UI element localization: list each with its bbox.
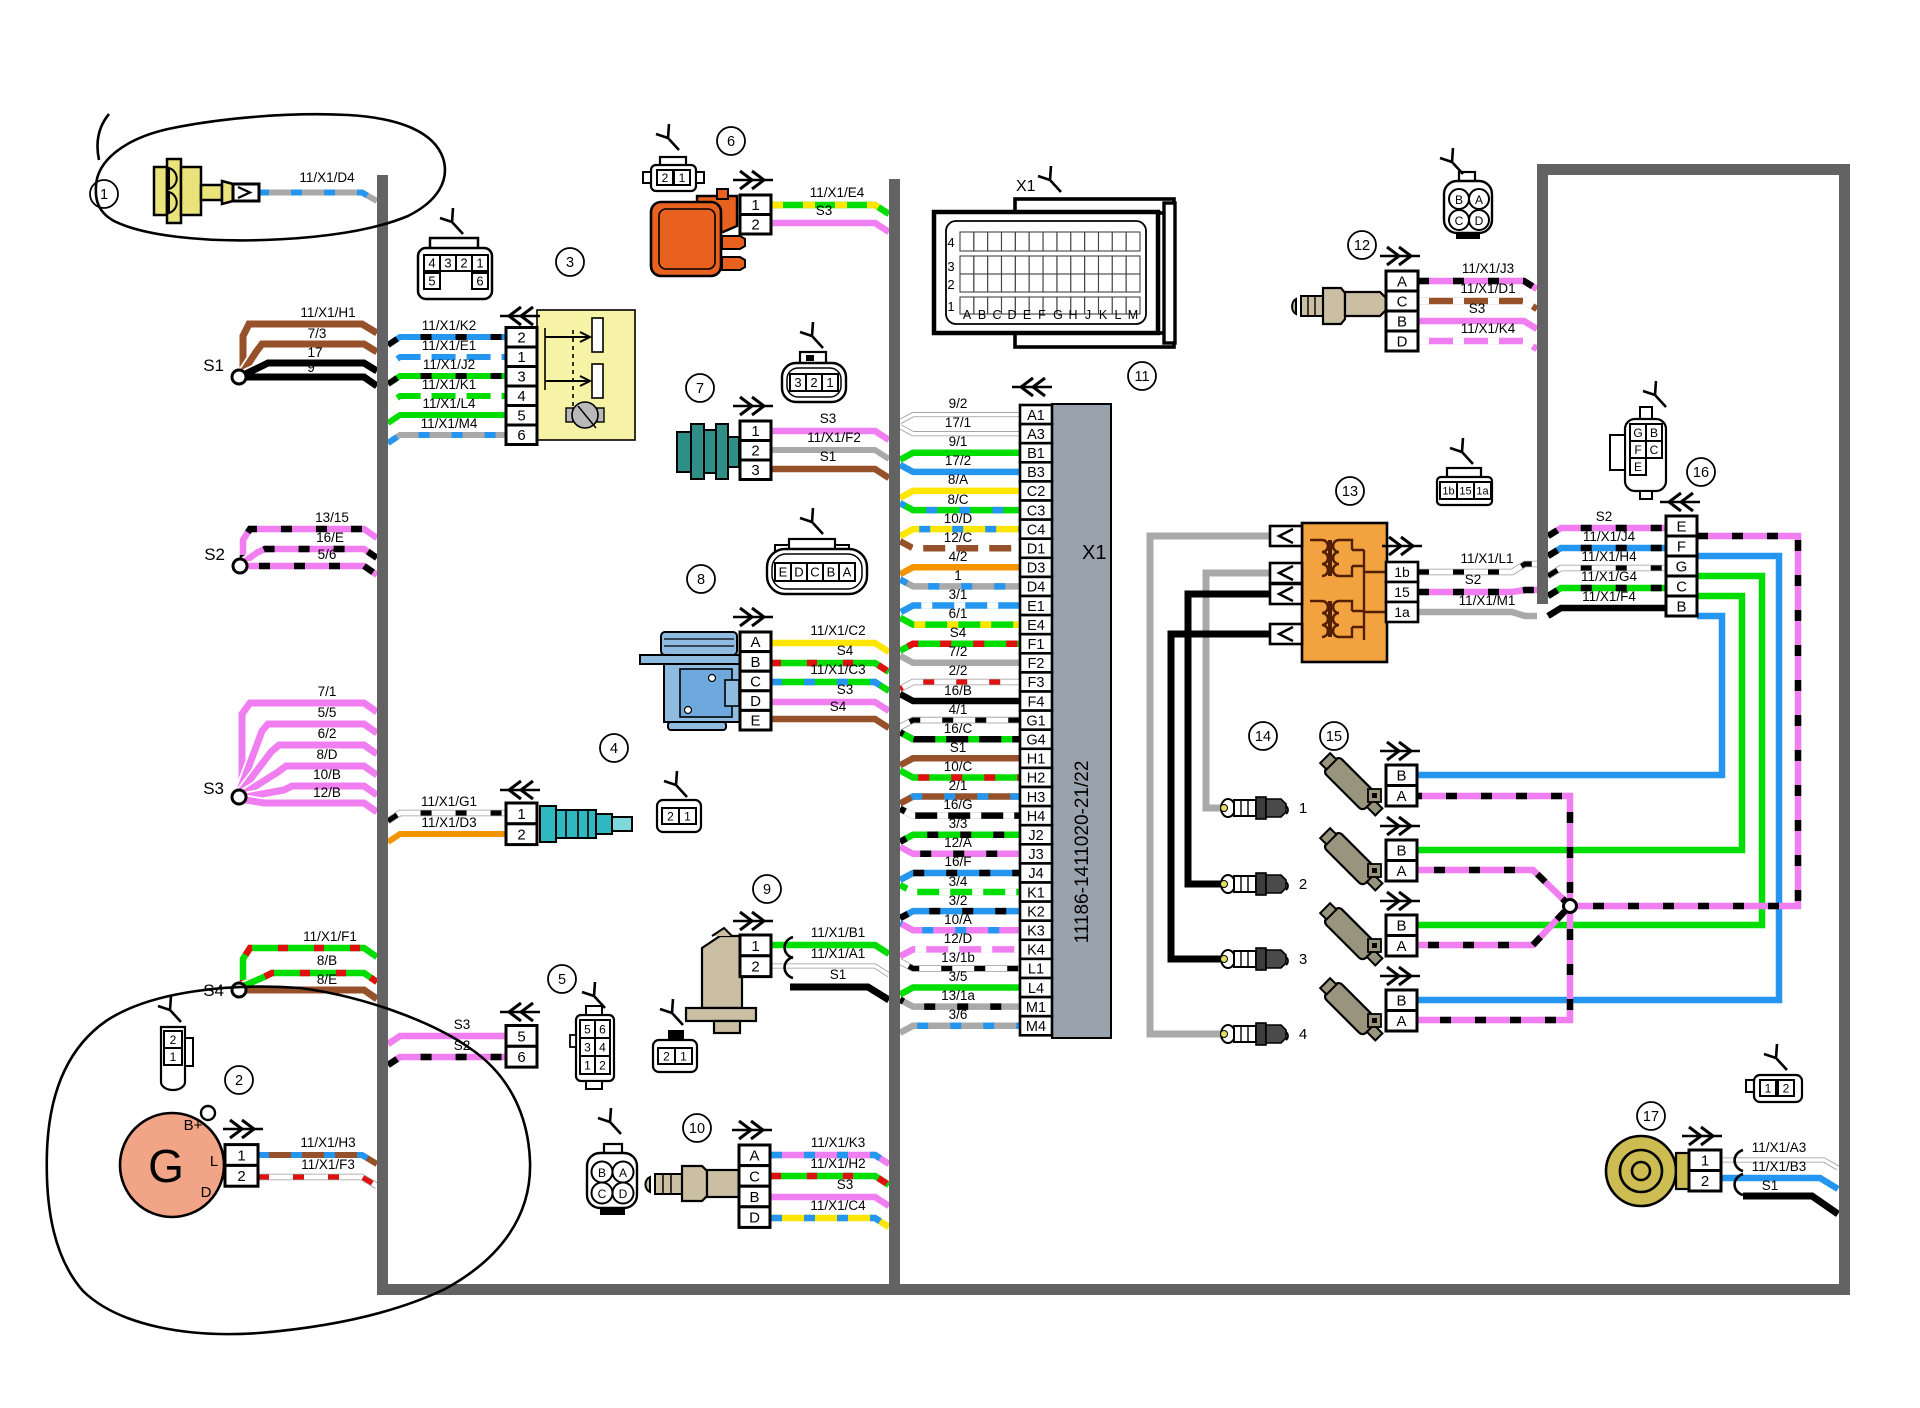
wire 16/F to ECU pin J4	[900, 873, 1020, 880]
wire S1 comp7 pin3	[771, 469, 889, 478]
svg-text:S4: S4	[837, 643, 854, 658]
svg-text:3: 3	[751, 462, 759, 479]
svg-text:X1: X1	[1082, 542, 1106, 564]
svg-text:1a: 1a	[1394, 604, 1410, 620]
svg-text:9/1: 9/1	[949, 434, 968, 449]
svg-text:S2: S2	[204, 545, 225, 564]
wire 17 black from S1	[239, 363, 377, 377]
wire 11/X1/H2 o2 C	[771, 1176, 889, 1185]
callout circle 5	[548, 965, 576, 993]
svg-text:8: 8	[697, 572, 705, 588]
svg-text:3/2: 3/2	[949, 893, 968, 908]
wire S4 maf E	[771, 719, 889, 728]
svg-text:L4: L4	[1028, 981, 1044, 997]
wire 11/X1/A1 cks pin2	[771, 966, 889, 975]
svg-text:E: E	[779, 565, 788, 580]
callout circle 12	[1348, 231, 1376, 259]
svg-text:J3: J3	[1028, 847, 1043, 863]
svg-text:15: 15	[1459, 486, 1471, 498]
wire 13/1b to ECU pin L1	[900, 962, 1020, 969]
wire 10/D to ECU pin C4	[900, 529, 1020, 536]
svg-text:17: 17	[307, 345, 322, 360]
svg-text:7: 7	[696, 381, 704, 397]
svg-text:S3: S3	[816, 203, 833, 218]
svg-text:A: A	[1396, 938, 1406, 955]
svg-text:G: G	[148, 1140, 184, 1192]
svg-text:1: 1	[584, 1058, 591, 1072]
svg-text:A: A	[749, 1148, 759, 1165]
wire comp16 B blue to injector 1	[1417, 616, 1722, 775]
wire S3 plug12 B	[1418, 321, 1537, 329]
bus bar middle vertical	[889, 179, 900, 1295]
svg-text:2: 2	[237, 1168, 245, 1185]
svg-text:J4: J4	[1028, 866, 1043, 882]
svg-text:11/X1/C3: 11/X1/C3	[810, 662, 865, 677]
svg-text:A: A	[750, 634, 760, 651]
svg-text:E: E	[1676, 518, 1686, 535]
callout circle 9	[753, 875, 781, 903]
svg-text:11/X1/J2: 11/X1/J2	[423, 357, 475, 372]
wire 1 to ECU pin D4	[900, 579, 1020, 586]
arrow symbol comp17	[1682, 1135, 1722, 1137]
svg-text:2/2: 2/2	[949, 663, 968, 678]
svg-text:9/2: 9/2	[949, 396, 968, 411]
svg-text:11/X1/B1: 11/X1/B1	[811, 925, 866, 940]
wire 10/C to ECU pin H2	[900, 771, 1020, 778]
svg-text:H3: H3	[1027, 790, 1046, 806]
wire 11/X1/D1 plug12 C	[1418, 301, 1537, 309]
svg-text:9: 9	[307, 360, 315, 375]
wire S3 comp7 pin1	[771, 431, 889, 440]
svg-text:S3: S3	[454, 1017, 471, 1032]
svg-text:2: 2	[517, 827, 525, 844]
svg-text:2: 2	[1299, 876, 1307, 893]
component 12 pin boxes	[1386, 271, 1418, 351]
svg-text:C: C	[1650, 443, 1659, 457]
frame right vertical bar	[1839, 164, 1850, 1295]
svg-text:11/X1/F4: 11/X1/F4	[1582, 589, 1636, 604]
svg-text:3/1: 3/1	[949, 587, 968, 602]
svg-text:4: 4	[1299, 1026, 1307, 1043]
svg-text:5: 5	[558, 972, 566, 988]
wire 11/X1/F4 to comp16 B	[1548, 608, 1666, 616]
svg-text:S3: S3	[837, 1177, 854, 1192]
svg-text:11/X1/C2: 11/X1/C2	[810, 623, 865, 638]
svg-text:1: 1	[237, 1147, 245, 1164]
svg-text:D: D	[1397, 333, 1408, 350]
wire coil gray to plug 4	[1150, 536, 1270, 1034]
component 4 turquoise body	[540, 806, 632, 842]
module input connectors	[1270, 526, 1302, 644]
svg-text:C: C	[1676, 578, 1687, 595]
svg-text:B: B	[978, 308, 986, 322]
wire 16/G to ECU pin H4	[900, 809, 1020, 816]
wire S3 coil pin2	[771, 223, 889, 232]
connector icon component 2	[158, 996, 193, 1090]
wire 12/C to ECU pin D1	[900, 541, 1020, 548]
component 3 yellow box	[537, 310, 635, 440]
svg-text:3: 3	[566, 255, 574, 271]
svg-text:10/B: 10/B	[313, 767, 341, 782]
svg-text:5: 5	[517, 1028, 525, 1045]
svg-text:A: A	[1396, 863, 1406, 880]
svg-text:3/4: 3/4	[949, 874, 968, 889]
svg-text:B: B	[750, 654, 760, 671]
crank sensor pin boxes	[740, 935, 771, 977]
connector icon module 13	[1437, 438, 1492, 505]
wire 8/A to ECU pin C2	[900, 491, 1020, 498]
svg-text:2: 2	[751, 443, 759, 460]
svg-text:1: 1	[679, 171, 686, 185]
wire 11/X1/G4 to comp16 C	[1548, 588, 1666, 596]
svg-text:17/2: 17/2	[945, 453, 971, 468]
callout circle 11	[1128, 362, 1156, 390]
svg-text:D4: D4	[1027, 580, 1046, 596]
svg-text:F: F	[1038, 308, 1046, 322]
svg-text:16/G: 16/G	[943, 797, 972, 812]
wire S4 maf B	[771, 663, 889, 672]
svg-text:3: 3	[1299, 951, 1307, 968]
svg-text:7/2: 7/2	[949, 644, 968, 659]
module output pin boxes	[1386, 562, 1418, 622]
MAF sensor blue body	[640, 632, 747, 730]
svg-text:6: 6	[727, 134, 735, 150]
svg-text:1: 1	[751, 197, 759, 214]
svg-text:E4: E4	[1027, 618, 1045, 634]
svg-text:11/X1/E1: 11/X1/E1	[422, 338, 477, 353]
wire comp16 C green to injector 2	[1417, 596, 1742, 850]
arrow symbol comp10	[732, 1129, 772, 1131]
svg-text:3: 3	[444, 256, 451, 271]
svg-text:B: B	[598, 1166, 606, 1180]
wire S2 to comp5 pin 6	[388, 1057, 506, 1065]
svg-text:K: K	[1099, 308, 1108, 322]
svg-text:4: 4	[610, 741, 618, 757]
svg-text:2: 2	[947, 277, 954, 292]
svg-text:B+: B+	[184, 1117, 203, 1134]
svg-text:H: H	[1068, 308, 1077, 322]
svg-text:2: 2	[667, 809, 674, 823]
hand-drawn loop tail	[97, 114, 109, 160]
wire 11/X1/M4 to pin 6	[388, 435, 506, 443]
svg-text:5: 5	[517, 408, 525, 425]
wire 10/A to ECU pin K3	[900, 923, 1020, 930]
chevron symbol comp16	[1660, 501, 1700, 503]
svg-text:11/X1/K1: 11/X1/K1	[422, 377, 477, 392]
wire 9 black from S1	[239, 377, 377, 386]
svg-text:11/X1/J4: 11/X1/J4	[1583, 529, 1636, 544]
svg-text:1: 1	[1765, 1081, 1772, 1095]
svg-text:1: 1	[170, 1050, 177, 1064]
svg-text:2: 2	[170, 1033, 177, 1047]
svg-text:B1: B1	[1027, 446, 1045, 462]
svg-text:D: D	[201, 1184, 212, 1201]
component 12 sensor body	[1292, 288, 1386, 324]
svg-text:15: 15	[1394, 584, 1410, 600]
node S2	[204, 545, 247, 573]
svg-text:13/1b: 13/1b	[941, 950, 975, 965]
connector icon component 17	[1746, 1044, 1802, 1102]
svg-text:C: C	[1455, 214, 1464, 228]
svg-text:B: B	[1396, 918, 1406, 935]
wire 12/D to ECU pin K4	[900, 949, 1020, 956]
svg-text:12/C: 12/C	[944, 530, 973, 545]
svg-text:5/6: 5/6	[318, 547, 337, 562]
wire 11/X1/B1 cks pin1	[771, 945, 889, 954]
svg-text:B: B	[1396, 768, 1406, 785]
svg-text:6: 6	[517, 427, 525, 444]
generator circle	[120, 1106, 224, 1217]
wire comp16 G green to injector 3	[1417, 576, 1762, 925]
connector icon component 8 oval EDCBA	[767, 508, 867, 594]
wire 5/6 from S2	[240, 566, 377, 575]
svg-text:1b: 1b	[1442, 486, 1454, 498]
svg-text:H2: H2	[1027, 771, 1046, 787]
svg-text:10: 10	[689, 1121, 705, 1137]
wire 11/X1/J3 plug12 A	[1418, 281, 1537, 289]
svg-text:A: A	[1396, 788, 1406, 805]
svg-text:11/X1/B3: 11/X1/B3	[1752, 1159, 1807, 1174]
svg-text:2: 2	[235, 1073, 243, 1089]
svg-text:C: C	[749, 1168, 760, 1185]
connector icon component 3	[418, 208, 492, 299]
svg-text:S2: S2	[1596, 509, 1613, 524]
svg-text:6: 6	[517, 1049, 525, 1066]
svg-text:G1: G1	[1026, 713, 1045, 729]
svg-text:3: 3	[584, 1040, 591, 1054]
svg-text:1: 1	[684, 809, 691, 823]
svg-text:1: 1	[1299, 800, 1307, 817]
svg-text:G: G	[1676, 558, 1688, 575]
wire 11/X1/K3 o2 A	[771, 1155, 889, 1164]
svg-text:S1: S1	[830, 967, 847, 982]
svg-text:F: F	[1677, 538, 1686, 555]
svg-text:S3: S3	[837, 682, 854, 697]
wire 11/X1/A3 knock 1	[1721, 1160, 1838, 1168]
MAF pin boxes	[740, 632, 771, 730]
svg-text:E: E	[750, 713, 760, 730]
wire 11/X1/L4 to pin 5	[388, 415, 506, 423]
svg-text:2: 2	[751, 959, 759, 976]
connector icon component 10 round 4pin	[587, 1108, 637, 1215]
generator pin boxes	[225, 1145, 258, 1187]
wire 3/4 to ECU pin K1	[900, 885, 1020, 892]
wire injector 1 A violet	[1417, 796, 1570, 900]
svg-text:14: 14	[1255, 729, 1271, 745]
callout circle 15	[1320, 722, 1348, 750]
callout circle 4	[600, 734, 628, 762]
svg-text:2: 2	[1783, 1081, 1790, 1095]
svg-text:11/X1/G4: 11/X1/G4	[1581, 569, 1638, 584]
wire 17/2 to ECU pin B3	[900, 465, 1020, 472]
svg-text:3/3: 3/3	[949, 816, 968, 831]
svg-text:2: 2	[460, 256, 467, 271]
hand-drawn loop around component 2	[47, 987, 530, 1334]
svg-text:C3: C3	[1027, 503, 1046, 519]
svg-text:7/3: 7/3	[308, 326, 327, 341]
svg-text:A: A	[1475, 193, 1483, 207]
svg-text:11/X1/F3: 11/X1/F3	[301, 1157, 355, 1172]
svg-text:2/1: 2/1	[949, 778, 968, 793]
svg-text:D3: D3	[1027, 561, 1046, 577]
svg-text:K1: K1	[1027, 885, 1045, 901]
svg-text:10/D: 10/D	[944, 511, 973, 526]
arrow symbol coil	[733, 179, 773, 181]
svg-text:S1: S1	[203, 356, 224, 375]
svg-text:D: D	[1475, 214, 1484, 228]
svg-text:C: C	[992, 308, 1001, 322]
connector icon component 9	[653, 999, 697, 1072]
wire 16/B to ECU pin F4	[900, 694, 1020, 701]
wire 11/X1/L1 module out 1b	[1418, 564, 1537, 572]
svg-text:12/D: 12/D	[944, 931, 973, 946]
svg-text:11/X1/K4: 11/X1/K4	[1461, 321, 1516, 336]
svg-text:6: 6	[599, 1022, 606, 1036]
wire 11/X1/H3 generator pin1	[258, 1155, 377, 1164]
svg-text:11/X1/H1: 11/X1/H1	[300, 305, 355, 320]
svg-text:11/X1/D1: 11/X1/D1	[1460, 281, 1515, 296]
svg-text:11/X1/A3: 11/X1/A3	[1752, 1140, 1807, 1155]
wire S1 knock shield	[1743, 1196, 1838, 1214]
svg-text:3: 3	[517, 369, 525, 386]
connector icon component 7 oval 321	[782, 322, 846, 402]
svg-text:X1: X1	[1016, 178, 1036, 195]
svg-text:6: 6	[476, 274, 483, 289]
chevron symbol component 3	[500, 315, 540, 317]
svg-text:6/2: 6/2	[318, 726, 337, 741]
svg-text:S2: S2	[1465, 572, 1482, 587]
wire 9/1 to ECU pin B1	[900, 453, 1020, 460]
svg-text:5/5: 5/5	[318, 705, 337, 720]
wire 11/X1/C2 maf A	[771, 643, 889, 652]
wire 2/1 to ECU pin H3	[900, 797, 1020, 804]
callout circle 6	[717, 127, 745, 155]
callout circle 14	[1249, 722, 1277, 750]
arrow symbol module 13	[1382, 545, 1422, 547]
callout circle 7	[686, 374, 714, 402]
svg-text:C2: C2	[1027, 484, 1046, 500]
arrow symbol comp12	[1380, 255, 1420, 257]
oxygen sensor pin boxes	[739, 1145, 770, 1227]
frame bottom bar	[377, 1284, 1850, 1295]
wire S3 o2 B	[771, 1197, 889, 1206]
svg-text:11/X1/K3: 11/X1/K3	[811, 1135, 866, 1150]
svg-text:D: D	[1007, 308, 1016, 322]
frame left vertical bar	[1537, 164, 1548, 604]
wire comp16 E violet down	[1576, 536, 1798, 906]
svg-text:D: D	[750, 693, 761, 710]
wire S1 to ECU pin H1	[900, 758, 1020, 765]
wire 10/B from S3	[240, 786, 377, 798]
wire 6/2 from S3	[240, 745, 377, 793]
connector icon component 12 round 4pin	[1440, 148, 1492, 239]
svg-text:3/6: 3/6	[949, 1007, 968, 1022]
wire 13/15 from S2	[243, 529, 377, 566]
wire S4 to ECU pin F1	[900, 644, 1020, 651]
svg-text:F4: F4	[1028, 694, 1045, 710]
svg-text:H1: H1	[1027, 752, 1046, 768]
svg-text:S1: S1	[950, 740, 967, 755]
ignition coil body orange	[651, 189, 745, 276]
svg-text:11186-1411020-21/22: 11186-1411020-21/22	[1072, 761, 1093, 944]
svg-text:4: 4	[517, 388, 525, 405]
knock sensor body	[1606, 1136, 1698, 1206]
svg-text:B3: B3	[1027, 465, 1045, 481]
svg-text:1: 1	[954, 568, 962, 583]
wire S2 to comp16 E	[1548, 528, 1666, 536]
svg-text:B: B	[827, 565, 836, 580]
wire 11/X1/M1 module out 1a	[1418, 612, 1537, 616]
svg-text:S4: S4	[950, 625, 967, 640]
svg-text:B: B	[1455, 193, 1463, 207]
arrow symbol generator	[223, 1128, 263, 1130]
svg-text:1: 1	[680, 1049, 687, 1063]
wire 17/1 to ECU pin A3	[900, 427, 1020, 434]
svg-text:1: 1	[751, 423, 759, 440]
svg-text:11/X1/L4: 11/X1/L4	[422, 396, 476, 411]
svg-text:6/1: 6/1	[949, 606, 968, 621]
wire S3 maf D	[771, 702, 889, 711]
svg-text:16/B: 16/B	[944, 683, 972, 698]
svg-text:16/F: 16/F	[944, 854, 971, 869]
svg-text:L1: L1	[1028, 962, 1044, 978]
wire 11/X1/B3 knock 2	[1721, 1178, 1838, 1189]
wire 13/1a to ECU pin M1	[900, 1000, 1020, 1007]
svg-text:D: D	[794, 565, 803, 580]
frame top bar	[1537, 164, 1850, 175]
wire 11/X1/H4 to comp16 G	[1548, 568, 1666, 576]
knock sensor pin boxes	[1689, 1150, 1721, 1191]
connector icon component 6	[643, 124, 704, 191]
svg-text:11/X1/H3: 11/X1/H3	[300, 1135, 355, 1150]
arrow symbol comp8	[733, 616, 773, 618]
svg-text:13: 13	[1342, 484, 1358, 500]
svg-text:A: A	[843, 565, 852, 580]
svg-text:13/1a: 13/1a	[941, 988, 975, 1003]
shield arcs comp9	[785, 937, 793, 978]
wire 4/2 to ECU pin D3	[900, 567, 1020, 574]
svg-text:12/A: 12/A	[944, 835, 972, 850]
svg-text:16/E: 16/E	[316, 530, 344, 545]
chevron symbol comp4	[500, 789, 540, 791]
svg-text:2: 2	[810, 375, 817, 390]
svg-text:K3: K3	[1027, 924, 1045, 940]
svg-text:16: 16	[1693, 465, 1709, 481]
svg-text:H4: H4	[1027, 809, 1046, 825]
wire 11/X1/C4 o2 D	[771, 1218, 889, 1227]
svg-text:4/1: 4/1	[949, 702, 968, 717]
wire 16/E from S2	[241, 549, 377, 564]
svg-text:S3: S3	[203, 779, 224, 798]
wire 11/X1/F2 comp7 pin2	[771, 450, 889, 459]
wire 11/X1/E4 coil pin1	[771, 205, 889, 214]
svg-text:B: B	[1676, 598, 1686, 615]
svg-text:1: 1	[517, 349, 525, 366]
svg-text:8/A: 8/A	[948, 472, 968, 487]
svg-text:2: 2	[1701, 1173, 1709, 1190]
ECU X1 gray body	[1052, 404, 1111, 1038]
wire 16/C to ECU pin G4	[900, 732, 1020, 739]
junction node injectors A	[1564, 900, 1577, 913]
wire 3/6 to ECU pin M4	[900, 1026, 1020, 1033]
svg-text:A: A	[963, 308, 972, 322]
svg-text:M: M	[1128, 308, 1138, 322]
svg-text:11/X1/L1: 11/X1/L1	[1460, 551, 1513, 566]
svg-text:A: A	[1396, 1013, 1406, 1030]
svg-text:3: 3	[947, 259, 954, 274]
svg-text:2: 2	[751, 217, 759, 234]
svg-text:11/X1/D4: 11/X1/D4	[299, 170, 355, 185]
